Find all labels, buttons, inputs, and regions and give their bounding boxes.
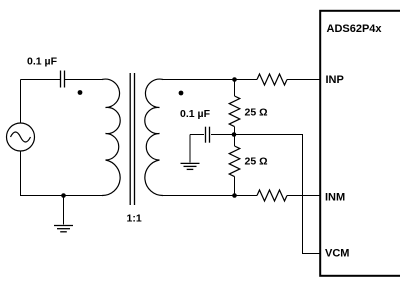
- svg-text:0.1 µF: 0.1 µF: [27, 55, 58, 67]
- svg-text:INP: INP: [326, 74, 344, 86]
- svg-text:0.1 µF: 0.1 µF: [180, 108, 211, 120]
- svg-text:INM: INM: [325, 192, 345, 204]
- svg-text:1:1: 1:1: [127, 213, 142, 225]
- svg-text:25 Ω: 25 Ω: [245, 155, 268, 167]
- svg-text:ADS62P4x: ADS62P4x: [327, 23, 383, 35]
- svg-text:25 Ω: 25 Ω: [245, 106, 268, 118]
- svg-text:VCM: VCM: [325, 248, 349, 260]
